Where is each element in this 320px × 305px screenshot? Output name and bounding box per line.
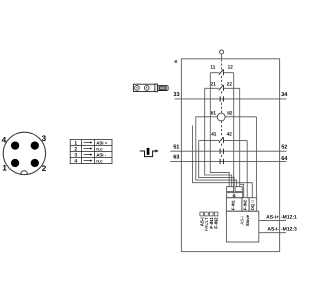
- svg-text:12: 12: [228, 64, 234, 69]
- svg-text:2: 2: [74, 147, 77, 153]
- svg-text:-M12:3: -M12:3: [281, 226, 297, 232]
- svg-text:&: &: [232, 193, 236, 199]
- svg-text:63: 63: [173, 155, 179, 161]
- svg-text:11: 11: [210, 64, 215, 69]
- svg-text:2: 2: [42, 164, 47, 173]
- svg-text:II2: II2: [227, 111, 233, 116]
- svg-text:F-IN2: F-IN2: [214, 217, 219, 229]
- svg-text:II1: II1: [211, 111, 217, 116]
- svg-text:4: 4: [74, 159, 77, 165]
- svg-text:ASI -: ASI -: [96, 152, 107, 157]
- svg-text:51: 51: [173, 144, 179, 150]
- svg-text:34: 34: [281, 92, 288, 98]
- svg-text:33: 33: [173, 92, 179, 98]
- svg-text:-M12:1: -M12:1: [281, 214, 297, 220]
- svg-text:n.c: n.c: [96, 146, 103, 151]
- svg-text:42: 42: [227, 131, 233, 136]
- svg-text:F-IN2: F-IN2: [242, 199, 247, 210]
- svg-text:22: 22: [227, 82, 233, 87]
- svg-text:AS-i-: AS-i-: [267, 226, 279, 232]
- svg-text:3: 3: [42, 134, 47, 143]
- svg-text:AS-i+: AS-i+: [266, 214, 279, 220]
- svg-text:ASI +: ASI +: [96, 140, 108, 145]
- svg-text:52: 52: [281, 144, 287, 150]
- svg-text:64: 64: [281, 156, 288, 162]
- svg-text:41: 41: [211, 131, 217, 136]
- svg-text:Slave: Slave: [245, 214, 250, 226]
- svg-text:F-IN1: F-IN1: [230, 199, 235, 210]
- svg-text:AS-i: AS-i: [240, 216, 245, 224]
- svg-text:1: 1: [2, 164, 7, 173]
- svg-text:4: 4: [2, 136, 7, 145]
- svg-text:-0: -0: [173, 59, 177, 64]
- svg-text:n.c: n.c: [96, 158, 103, 163]
- svg-text:21: 21: [211, 82, 217, 87]
- svg-text:OQ □: OQ □: [250, 200, 255, 211]
